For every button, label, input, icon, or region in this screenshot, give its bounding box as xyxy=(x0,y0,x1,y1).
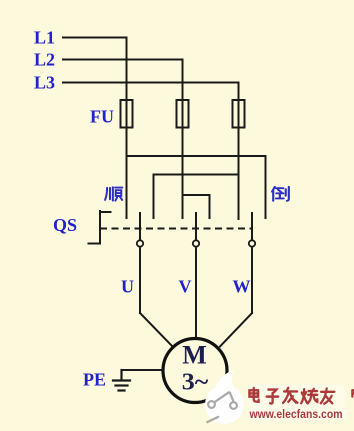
glyph dian xyxy=(249,388,258,402)
pole 2 contact circle xyxy=(193,240,199,246)
svg-text:www.elecfans.com: www.elecfans.com xyxy=(249,407,343,421)
wire L2 horizontal xyxy=(63,59,183,61)
switch QS mechanical link (dashed) xyxy=(100,228,252,230)
fuse FU1 xyxy=(121,100,133,128)
wire L1 reverse-feed horizontal xyxy=(127,155,266,157)
glyph fa xyxy=(283,388,297,403)
wire L1 column xyxy=(126,38,128,219)
label dao (reverse) hand-drawn glyph xyxy=(272,187,289,201)
switch QS handle xyxy=(89,211,111,244)
wire L2 column xyxy=(182,60,184,219)
svg-text:L1: L1 xyxy=(34,28,55,48)
svg-text:U: U xyxy=(121,277,134,297)
label shun (forward) hand-drawn glyph xyxy=(105,187,122,200)
wire L2 branch drop to pole2 right contact xyxy=(209,195,211,218)
ground symbol xyxy=(113,370,130,391)
wire L3 column xyxy=(238,83,240,220)
pole 1 contact circle xyxy=(137,240,143,246)
wire PE to motor xyxy=(122,369,164,371)
wire V drop to motor xyxy=(195,313,197,339)
emblem pad right xyxy=(230,402,237,409)
glyph zi xyxy=(267,390,279,404)
fuse FU3 xyxy=(233,100,245,128)
wire L3 reverse-feed drop to pole1 right contact xyxy=(153,175,155,219)
wire L1 horizontal xyxy=(63,37,127,39)
svg-text:3~: 3~ xyxy=(182,370,209,396)
svg-text:QS: QS xyxy=(53,215,77,235)
svg-text:L3: L3 xyxy=(34,73,55,93)
switch pole 1 blade xyxy=(139,213,141,313)
glyph fragment at right edge xyxy=(352,388,354,399)
svg-text:PE: PE xyxy=(83,370,106,390)
wire U diagonal to motor xyxy=(140,313,173,347)
watermark text dian-zi-fa-shao-you (red) xyxy=(249,388,354,404)
watermark logo emblem circle xyxy=(205,370,244,424)
pole 3 contact circle xyxy=(249,240,255,246)
watermark white glow pads xyxy=(246,385,347,420)
wire L3 horizontal xyxy=(63,82,239,84)
svg-text:V: V xyxy=(179,277,192,297)
emblem circuit trace xyxy=(214,392,230,403)
wire L1 reverse-feed drop to pole3 right contact xyxy=(265,156,267,218)
svg-text:M: M xyxy=(182,341,207,370)
motor M circle xyxy=(163,339,227,403)
fuse FU2 xyxy=(177,100,189,128)
switch pole 3 blade xyxy=(251,213,253,313)
svg-text:W: W xyxy=(233,277,251,297)
emblem pad left xyxy=(208,401,215,408)
svg-text:L2: L2 xyxy=(34,50,55,70)
switch pole 2 blade xyxy=(195,213,197,313)
glyph shao xyxy=(301,389,317,403)
glyph you xyxy=(321,388,335,403)
wire L3 reverse-feed horizontal xyxy=(154,174,239,176)
wire L2 branch horizontal xyxy=(183,194,210,196)
svg-text:FU: FU xyxy=(90,107,114,127)
wire W diagonal to motor xyxy=(220,313,252,347)
